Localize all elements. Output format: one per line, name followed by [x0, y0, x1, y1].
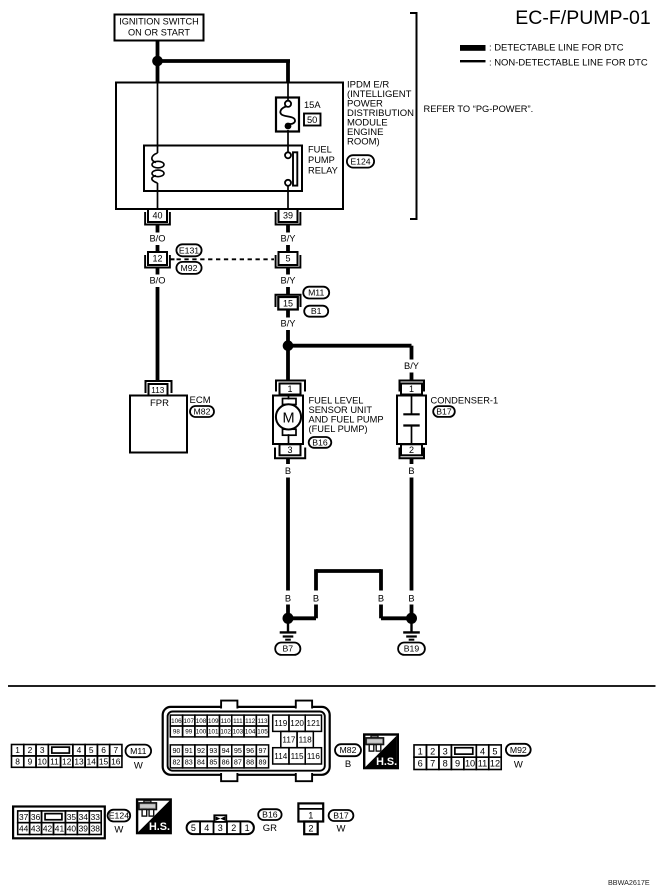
- svg-text:96: 96: [246, 746, 254, 755]
- svg-text:114: 114: [274, 752, 287, 761]
- svg-text:3: 3: [40, 745, 45, 755]
- svg-text:4: 4: [204, 823, 209, 833]
- svg-text:B: B: [313, 593, 319, 603]
- svg-text:FUEL: FUEL: [308, 145, 332, 155]
- svg-text:42: 42: [43, 824, 53, 834]
- svg-text:121: 121: [307, 719, 321, 728]
- svg-text:: NON-DETECTABLE LINE FOR DTC: : NON-DETECTABLE LINE FOR DTC: [489, 58, 648, 69]
- svg-text:M11: M11: [308, 288, 324, 298]
- svg-text:ECM: ECM: [190, 395, 211, 406]
- svg-text:83: 83: [185, 758, 193, 767]
- svg-text:119: 119: [274, 719, 287, 728]
- svg-text:B/O: B/O: [149, 233, 165, 243]
- svg-text:1: 1: [308, 811, 313, 821]
- svg-text:14: 14: [87, 757, 97, 767]
- svg-text:M82: M82: [340, 745, 357, 755]
- svg-text:113: 113: [257, 718, 268, 725]
- svg-text:7: 7: [430, 759, 435, 769]
- svg-text:108: 108: [196, 718, 207, 725]
- svg-text:B17: B17: [436, 407, 452, 417]
- svg-text:15A: 15A: [304, 100, 321, 110]
- svg-text:98: 98: [173, 729, 181, 736]
- svg-text:M: M: [282, 410, 294, 426]
- svg-text:99: 99: [185, 729, 193, 736]
- svg-text:12: 12: [62, 757, 72, 767]
- svg-text:B: B: [408, 593, 414, 603]
- svg-text:B19: B19: [404, 644, 420, 654]
- svg-text:B16: B16: [312, 437, 328, 447]
- svg-text:15: 15: [99, 757, 109, 767]
- svg-text:B17: B17: [333, 811, 349, 821]
- svg-text:107: 107: [183, 718, 194, 725]
- svg-text:12: 12: [152, 254, 162, 264]
- svg-text:H.S.: H.S.: [149, 821, 170, 833]
- svg-text:B: B: [345, 759, 351, 770]
- svg-text:15: 15: [283, 299, 293, 309]
- svg-text:4: 4: [480, 746, 485, 756]
- svg-text:EC-F/PUMP-01: EC-F/PUMP-01: [515, 7, 650, 29]
- svg-text:B1: B1: [311, 306, 322, 316]
- svg-text:M92: M92: [510, 745, 527, 755]
- svg-text:H.S.: H.S.: [376, 756, 397, 768]
- svg-text:50: 50: [307, 115, 317, 125]
- svg-text:2: 2: [231, 823, 236, 833]
- svg-text:82: 82: [172, 758, 180, 767]
- svg-text:M82: M82: [194, 407, 211, 417]
- svg-text:E124: E124: [109, 811, 129, 821]
- svg-text:37: 37: [19, 812, 29, 822]
- svg-text:B/Y: B/Y: [281, 318, 296, 328]
- svg-text:111: 111: [233, 718, 243, 725]
- svg-text:BBWA2617E: BBWA2617E: [608, 878, 650, 887]
- svg-text:105: 105: [257, 729, 268, 736]
- svg-text:117: 117: [282, 736, 295, 745]
- svg-text:36: 36: [31, 812, 41, 822]
- svg-text:E124: E124: [350, 156, 370, 166]
- svg-text:GR: GR: [263, 823, 277, 834]
- svg-text:B: B: [378, 593, 384, 603]
- svg-text:E131: E131: [179, 245, 199, 255]
- svg-text:116: 116: [307, 752, 320, 761]
- svg-text:100: 100: [196, 729, 207, 736]
- svg-text:CONDENSER-1: CONDENSER-1: [431, 395, 499, 405]
- svg-text:B/O: B/O: [149, 275, 165, 285]
- svg-text:35: 35: [67, 812, 77, 822]
- svg-text:40: 40: [152, 211, 162, 221]
- svg-text:103: 103: [233, 729, 244, 736]
- svg-text:89: 89: [258, 758, 266, 767]
- svg-text:6: 6: [101, 745, 106, 755]
- svg-text:118: 118: [299, 736, 312, 745]
- svg-text:4: 4: [77, 745, 82, 755]
- svg-text:5: 5: [191, 823, 196, 833]
- svg-text:8: 8: [15, 757, 20, 767]
- svg-text:7: 7: [113, 745, 118, 755]
- svg-text:1: 1: [418, 746, 423, 756]
- svg-text:3: 3: [287, 445, 292, 455]
- svg-text:ON OR START: ON OR START: [128, 27, 190, 37]
- svg-text:2: 2: [409, 445, 414, 455]
- svg-text:PUMP: PUMP: [308, 155, 335, 165]
- svg-text:11: 11: [478, 759, 488, 769]
- svg-text:120: 120: [290, 719, 304, 728]
- svg-text:88: 88: [246, 758, 254, 767]
- svg-text:41: 41: [55, 824, 65, 834]
- svg-text:W: W: [337, 824, 346, 835]
- svg-text:44: 44: [19, 824, 29, 834]
- svg-text:AND FUEL PUMP: AND FUEL PUMP: [309, 414, 384, 424]
- svg-text:5: 5: [492, 746, 497, 756]
- svg-text:SENSOR UNIT: SENSOR UNIT: [309, 405, 373, 415]
- svg-text:RELAY: RELAY: [308, 166, 338, 176]
- svg-text:85: 85: [209, 758, 217, 767]
- svg-text:34: 34: [79, 812, 89, 822]
- svg-text:11: 11: [50, 757, 59, 767]
- svg-text:97: 97: [258, 746, 266, 755]
- svg-text:13: 13: [74, 757, 84, 767]
- svg-text:90: 90: [172, 746, 180, 755]
- svg-text:101: 101: [208, 729, 219, 736]
- svg-text:16: 16: [111, 757, 121, 767]
- svg-text:6: 6: [418, 759, 423, 769]
- svg-text:1: 1: [409, 384, 414, 394]
- svg-text:87: 87: [234, 758, 242, 767]
- svg-text:38: 38: [91, 824, 101, 834]
- svg-text:112: 112: [245, 718, 256, 725]
- svg-text:12: 12: [490, 759, 500, 769]
- svg-text:B/Y: B/Y: [281, 233, 296, 243]
- svg-text:IGNITION SWITCH: IGNITION SWITCH: [119, 17, 199, 27]
- svg-text:M92: M92: [181, 263, 198, 273]
- svg-text:39: 39: [79, 824, 89, 834]
- svg-text:(FUEL PUMP): (FUEL PUMP): [309, 424, 368, 434]
- svg-text:ROOM): ROOM): [347, 137, 380, 148]
- svg-text:113: 113: [151, 386, 164, 395]
- svg-text:3: 3: [218, 823, 223, 833]
- svg-text:110: 110: [221, 718, 232, 725]
- svg-text:B: B: [285, 593, 291, 603]
- svg-text:9: 9: [28, 757, 33, 767]
- svg-text:40: 40: [67, 824, 77, 834]
- svg-text:106: 106: [171, 718, 182, 725]
- svg-text:FUEL LEVEL: FUEL LEVEL: [309, 395, 364, 405]
- svg-text:3: 3: [443, 746, 448, 756]
- svg-text:1: 1: [15, 745, 20, 755]
- svg-text:2: 2: [430, 746, 435, 756]
- svg-text:REFER TO “PG-POWER”.: REFER TO “PG-POWER”.: [424, 104, 534, 114]
- svg-text:1: 1: [287, 384, 292, 394]
- svg-text:B/Y: B/Y: [281, 275, 296, 285]
- svg-text:W: W: [134, 761, 143, 772]
- svg-text:M11: M11: [130, 746, 146, 756]
- svg-text:91: 91: [185, 746, 193, 755]
- svg-text:B: B: [285, 466, 291, 476]
- svg-text:10: 10: [465, 759, 475, 769]
- svg-text:: DETECTABLE LINE FOR DTC: : DETECTABLE LINE FOR DTC: [489, 43, 624, 54]
- svg-text:92: 92: [197, 746, 205, 755]
- svg-text:10: 10: [38, 757, 48, 767]
- svg-text:39: 39: [283, 211, 293, 221]
- svg-text:2: 2: [308, 823, 313, 833]
- svg-text:104: 104: [245, 729, 256, 736]
- svg-text:95: 95: [234, 746, 242, 755]
- svg-text:B7: B7: [282, 644, 293, 654]
- svg-text:B: B: [408, 466, 414, 476]
- svg-text:93: 93: [209, 746, 217, 755]
- svg-text:8: 8: [443, 759, 448, 769]
- svg-text:1: 1: [245, 823, 250, 833]
- svg-text:84: 84: [197, 758, 205, 767]
- svg-text:43: 43: [31, 824, 41, 834]
- svg-text:94: 94: [222, 746, 230, 755]
- svg-text:102: 102: [220, 729, 231, 736]
- svg-text:FPR: FPR: [150, 398, 169, 409]
- svg-text:33: 33: [91, 812, 101, 822]
- svg-text:5: 5: [285, 254, 290, 264]
- svg-text:86: 86: [222, 758, 230, 767]
- svg-text:109: 109: [208, 718, 219, 725]
- svg-text:B16: B16: [262, 810, 278, 820]
- svg-text:5: 5: [89, 745, 94, 755]
- svg-text:B/Y: B/Y: [404, 361, 419, 371]
- svg-text:9: 9: [455, 759, 460, 769]
- svg-text:2: 2: [28, 745, 33, 755]
- svg-text:W: W: [514, 759, 523, 770]
- svg-text:115: 115: [291, 752, 304, 761]
- svg-text:W: W: [114, 824, 123, 835]
